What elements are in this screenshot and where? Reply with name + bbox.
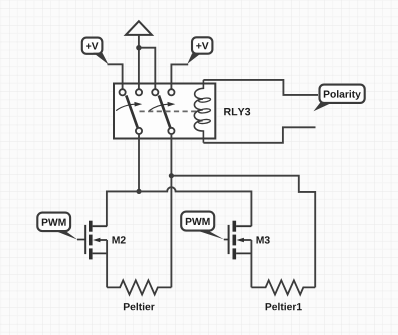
wire +V left to relay pin1 <box>108 64 123 89</box>
relay throw arrow 2 <box>149 102 175 111</box>
relay RLY3 body <box>114 84 215 139</box>
relay mechanical link (dashed) <box>140 110 197 112</box>
resistor Peltier1 <box>251 280 315 294</box>
transistor Q M3 <box>224 221 252 260</box>
relay switch arm 1 <box>126 95 137 127</box>
transistor Q M2 <box>77 221 107 260</box>
node junction B <box>136 189 141 194</box>
relay RLY3 body fill <box>114 84 215 139</box>
label M3 <box>257 236 270 243</box>
relay coil <box>194 80 210 143</box>
label Peltier <box>124 303 155 311</box>
node junction A <box>136 45 141 50</box>
wire arrow to relay pin2 <box>138 35 140 89</box>
relay pin 1 <box>120 89 126 95</box>
wire junction C to Peltier1 <box>171 176 315 288</box>
relay throw arrow 1 <box>116 102 142 111</box>
resistor Peltier <box>107 280 171 294</box>
relay pin 4 <box>168 89 174 95</box>
wire M3 source down <box>250 240 252 287</box>
label M2 <box>113 236 126 243</box>
relay pin 2 <box>136 89 142 95</box>
relay pin 5 <box>136 128 142 134</box>
relay switch arm 2 <box>159 95 170 127</box>
wire branch to relay pin3 <box>139 48 155 89</box>
label RLY3 <box>224 108 250 116</box>
label Peltier1 <box>266 303 302 311</box>
relay pin 3 <box>152 89 158 95</box>
wire coil bottom to polarity <box>203 127 315 143</box>
PWM label left <box>37 213 77 240</box>
wire coil top to polarity <box>203 80 318 95</box>
wire relay pin6 down <box>170 134 172 176</box>
wire +V right to relay pin4 <box>171 64 188 89</box>
Polarity label <box>314 85 365 112</box>
wire drain rail M2-M3 with hop <box>107 187 252 226</box>
wire junction C down to Peltier <box>170 176 172 288</box>
wire M2 source down <box>106 240 108 287</box>
wire relay pin5 down <box>138 134 140 191</box>
+V label left <box>82 38 109 65</box>
output arrow symbol <box>126 21 152 35</box>
PWM label right <box>181 212 224 240</box>
+V label right <box>187 37 212 64</box>
relay pin 6 <box>168 128 174 134</box>
node junction C <box>169 173 174 178</box>
